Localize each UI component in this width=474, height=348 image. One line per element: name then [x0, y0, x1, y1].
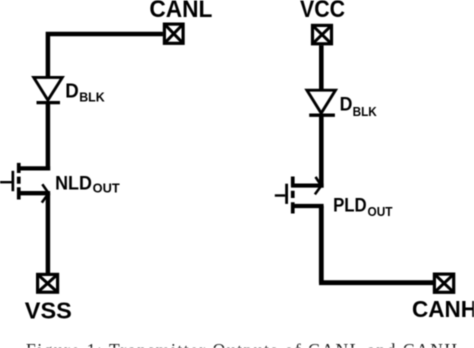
svg-text:D: D — [340, 94, 353, 116]
label NLD_OUT — [55, 173, 120, 196]
terminal VSS — [38, 274, 58, 292]
wire NLD_OUT source to VSS terminal — [46, 193, 51, 273]
label D_BLK left — [65, 81, 105, 105]
svg-text:BLK: BLK — [353, 104, 378, 119]
gate plate — [12, 171, 15, 191]
transistor Q PLD_OUT (PMOS) — [275, 177, 324, 214]
svg-text:OUT: OUT — [368, 204, 393, 219]
channel bar (3 segments) — [291, 177, 295, 214]
source arrow — [42, 184, 49, 202]
terminal CANL — [164, 24, 183, 43]
svg-text:NLD: NLD — [55, 173, 92, 195]
label PLD_OUT — [333, 194, 392, 219]
label D_BLK right — [340, 94, 378, 119]
upper (source) lead — [291, 184, 324, 188]
channel bar (3 segments) — [17, 163, 21, 200]
svg-text:VCC: VCC — [300, 0, 345, 23]
svg-text:CANH: CANH — [412, 296, 474, 322]
svg-text:D: D — [65, 81, 79, 103]
svg-text:Figure 1: Transmitter Outputs: Figure 1: Transmitter Outputs of CANL an… — [26, 340, 457, 348]
svg-text:BLK: BLK — [79, 91, 105, 105]
wire CANL terminal to diode D_BLK left (horizontal then down) — [48, 32, 163, 77]
source arrow — [315, 177, 321, 195]
diode D_BLK left (anode top, cathode bottom) — [34, 77, 63, 102]
terminal CANH — [434, 274, 453, 292]
svg-text:VSS: VSS — [25, 298, 72, 324]
drain lead — [17, 166, 50, 170]
transistor Q NLD_OUT (NMOS) — [0, 163, 50, 203]
wire PLD_OUT drain to CANH terminal (down then right) — [319, 206, 433, 283]
diode D_BLK right (anode top, cathode bottom) — [307, 90, 336, 115]
source lead — [17, 191, 50, 195]
wire VCC terminal to diode D_BLK right — [319, 45, 324, 89]
gate lead wire — [0, 181, 12, 183]
wire diode cathode to NLD_OUT drain — [46, 103, 51, 171]
svg-text:PLD: PLD — [333, 194, 367, 216]
wire diode cathode to PLD_OUT source — [319, 115, 324, 187]
gate plate — [285, 184, 288, 204]
lower (drain) lead — [291, 204, 324, 208]
svg-text:OUT: OUT — [93, 182, 120, 196]
svg-text:CANL: CANL — [149, 0, 212, 23]
terminal VCC — [313, 25, 332, 43]
gate lead wire — [275, 194, 285, 196]
